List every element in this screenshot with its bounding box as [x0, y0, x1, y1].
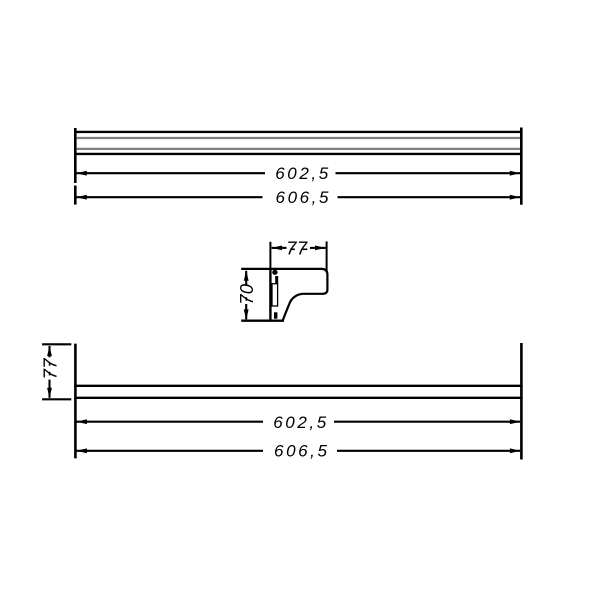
extension line bottom of 77 (bottom view) — [42, 398, 71, 400]
dimension line 77 (section) — [272, 247, 326, 249]
section profile left wall — [269, 268, 271, 322]
arrowhead right 602,5 (bottom) — [510, 419, 521, 424]
svg-text:77: 77 — [286, 238, 308, 259]
crossbar of second 7 (section text) — [303, 248, 308, 250]
svg-text:602,5: 602,5 — [275, 164, 331, 183]
section view: extension line right of 77 — [326, 241, 328, 272]
svg-text:602,5: 602,5 — [273, 413, 329, 432]
dimension line 77 (bottom view) — [48, 346, 50, 398]
section view: extension line left of 77 — [269, 242, 271, 269]
arrowhead left 606,5 (top) — [76, 195, 87, 200]
top view: top edge line — [74, 131, 522, 133]
top view: right end edge — [520, 128, 523, 205]
arrowhead right 606,5 (bottom) — [510, 448, 521, 453]
section profile outline — [241, 269, 327, 321]
inner slot rectangle (section) — [272, 284, 278, 306]
top view: bottom edge line — [74, 153, 522, 155]
svg-text:70: 70 — [236, 283, 257, 305]
arrowhead left 602,5 (top) — [76, 171, 87, 176]
top view: groove line 1 — [77, 137, 520, 139]
top view: left end edge — [74, 128, 77, 205]
crossbar of first 7 (bottom rotated text) — [49, 372, 51, 376]
arrowhead down 77 (bottom view) — [47, 388, 52, 399]
section profile bottom line — [241, 320, 284, 322]
bottom view: right end edge — [520, 343, 523, 460]
inner clip upper stub (section) — [275, 276, 278, 283]
arrowhead right 606,5 (top) — [510, 195, 521, 200]
arrowhead left 606,5 (bottom) — [76, 448, 87, 453]
svg-text:606,5: 606,5 — [276, 188, 332, 207]
bottom view: left end edge — [74, 344, 77, 459]
svg-text:77: 77 — [39, 358, 60, 380]
arrowhead left 77 (section) — [272, 246, 283, 251]
arrowhead right 602,5 (top) — [510, 171, 521, 176]
bottom view: bottom line — [74, 397, 522, 399]
crossbar of first 7 (section text) — [290, 248, 295, 250]
crossbar of 7 (section rotated text) — [245, 297, 247, 301]
crossbar of second 7 (bottom rotated text) — [49, 362, 51, 366]
inner clip lower stub (section) — [274, 312, 277, 318]
dimension line 606,5 (bottom view) — [77, 450, 521, 452]
inner clip arrow blob (section) — [272, 270, 277, 275]
bottom view: top line — [74, 385, 522, 387]
extension line top of 77 (bottom view) — [42, 343, 71, 345]
dimension line 602,5 (bottom view) — [77, 421, 521, 423]
dimension line 70 (section) — [245, 271, 247, 320]
dimension line 602,5 (top view) — [77, 172, 521, 174]
arrowhead up 70 (section) — [244, 270, 249, 281]
arrowhead down 70 (section) — [244, 309, 249, 320]
dimension line 606,5 (top view) — [77, 196, 521, 198]
arrowhead right 77 (section) — [315, 246, 326, 251]
arrowhead up 77 (bottom view) — [47, 346, 52, 357]
arrowhead left 602,5 (bottom) — [76, 419, 87, 424]
top view: groove line 2 — [77, 148, 520, 150]
svg-text:606,5: 606,5 — [274, 442, 330, 461]
